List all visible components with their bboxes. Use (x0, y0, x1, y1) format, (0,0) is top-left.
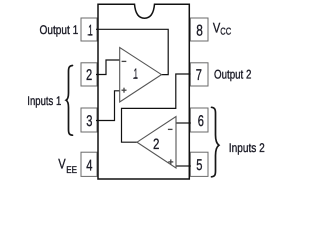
pin 1 box (81, 18, 97, 41)
svg-text:Inputs 2: Inputs 2 (229, 141, 265, 155)
pin 4 box (81, 152, 97, 176)
svg-text:V: V (58, 156, 66, 172)
svg-text:5: 5 (196, 157, 202, 174)
wire pin2 net to op-amp1 inverting input (96, 60, 120, 75)
svg-text:Output 1: Output 1 (40, 23, 79, 37)
wire pin7 net: output2 loop to op-amp2 apex (122, 74, 191, 142)
svg-text:8: 8 (196, 23, 203, 40)
op-amp U1 triangle (120, 48, 162, 103)
svg-text:1: 1 (88, 22, 93, 39)
op-amp U1 inverting input '-' (122, 60, 127, 62)
svg-text:4: 4 (86, 157, 92, 174)
op-amp U2 inverting input '-' (168, 128, 173, 130)
op-amp U1 non-inverting input '+' (122, 88, 127, 93)
pin 2 box (81, 63, 97, 86)
brace for Inputs 1 (66, 66, 72, 136)
wire pin5 net to op-amp2 non-inverting input (176, 165, 191, 167)
svg-text:2: 2 (153, 136, 159, 153)
svg-text:Inputs 1: Inputs 1 (27, 94, 61, 108)
svg-text:CC: CC (220, 26, 231, 37)
svg-text:Output 2: Output 2 (214, 68, 251, 82)
svg-text:1: 1 (134, 67, 138, 83)
wire pin3 net to op-amp1 non-inverting input (96, 91, 120, 121)
svg-text:2: 2 (86, 67, 92, 84)
wire pin6 net to op-amp2 inverting input (176, 122, 191, 124)
pin 6 box (190, 108, 208, 132)
pin 7 box (190, 63, 208, 86)
svg-text:7: 7 (196, 67, 202, 84)
op-amp U2 triangle (137, 117, 176, 169)
brace for Inputs 2 (212, 107, 219, 177)
svg-text:3: 3 (86, 113, 92, 130)
pin 5 box (190, 152, 208, 176)
svg-text:EE: EE (66, 165, 77, 176)
wire pin1 net: box1 to corner (96, 29, 168, 74)
op-amp U2 non-inverting input '+' (168, 159, 173, 164)
pin 3 box (81, 108, 97, 132)
svg-text:6: 6 (198, 113, 204, 130)
pin 8 box (190, 18, 208, 41)
IC body U1 with notch (98, 4, 189, 179)
